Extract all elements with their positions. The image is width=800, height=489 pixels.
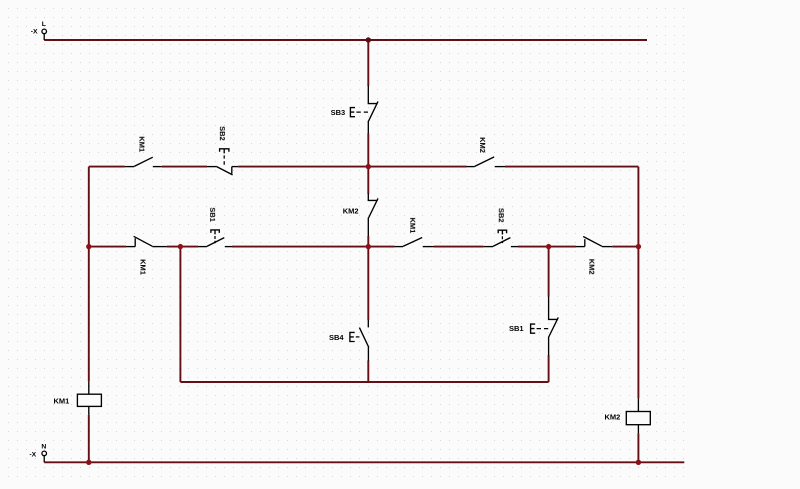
svg-text:SB1: SB1 [208, 207, 217, 222]
svg-text:KM1: KM1 [53, 396, 69, 405]
contact KM2 (NC mirrored, rail 3 right) [576, 237, 612, 247]
svg-text:KM2: KM2 [478, 137, 487, 153]
contact KM1 (NO, rail 3 right) [395, 238, 434, 247]
svg-text:SB1: SB1 [509, 324, 524, 333]
svg-text:SB2: SB2 [497, 208, 506, 223]
wire rail 2 segments [89, 166, 639, 168]
wire center vertical segments [367, 40, 369, 382]
node junction rail3 center [366, 244, 371, 249]
pushbutton SB4 (NO, vertical) [350, 320, 369, 361]
contact KM1 (NC mirrored, rail 3 left) [126, 236, 167, 246]
pushbutton SB2 (NC, rail 2) [207, 149, 238, 175]
svg-text:KM1: KM1 [138, 259, 147, 275]
node junction rail3 right [636, 244, 641, 249]
wire right vertical [637, 167, 639, 463]
wire drop x548 [548, 247, 550, 382]
svg-text:-X: -X [29, 452, 36, 459]
pushbutton SB1 (NO, rail 3) [198, 230, 232, 247]
node junction top rail [366, 37, 371, 42]
svg-text:SB4: SB4 [329, 333, 344, 342]
contact KM1 (NO, rail 2) [125, 157, 162, 166]
contact KM2 (NO, rail 2) [467, 157, 506, 167]
coil KM1 [77, 381, 101, 414]
svg-text:KM1: KM1 [137, 136, 146, 152]
contact KM2 (NC, vertical, interlock) [368, 194, 378, 236]
wire N rail (bottom) [44, 461, 684, 463]
svg-text:-X: -X [31, 28, 38, 35]
coil KM2 [626, 398, 650, 433]
node junction rail2 center [366, 164, 371, 169]
svg-text:SB2: SB2 [218, 126, 227, 141]
node junction rail3 left [86, 244, 91, 249]
svg-text:KM1: KM1 [408, 217, 417, 233]
wire inner rail [180, 381, 548, 383]
svg-text:L: L [42, 21, 46, 28]
terminal -X L [42, 29, 47, 40]
svg-text:SB3: SB3 [331, 108, 346, 117]
svg-text:KM2: KM2 [604, 412, 620, 421]
svg-text:N: N [41, 443, 46, 450]
svg-text:KM2: KM2 [343, 207, 359, 216]
pushbutton SB3 (NC, vertical) [350, 86, 378, 134]
wire drop x180 [179, 247, 181, 382]
terminal -X N [42, 451, 47, 462]
node junction rail3 x180 [178, 244, 183, 249]
svg-text:KM2: KM2 [587, 259, 596, 275]
wire rail 3 segments [89, 246, 639, 248]
node junction bottom right [636, 460, 641, 465]
node junction rail3 x548 [546, 244, 551, 249]
pushbutton SB1 (NC, vertical) [531, 296, 559, 355]
node junction bottom left [86, 460, 91, 465]
pushbutton SB2 (NO, rail 3) [483, 230, 518, 246]
wire left vertical [88, 167, 90, 463]
wire L rail (top) [44, 39, 647, 41]
